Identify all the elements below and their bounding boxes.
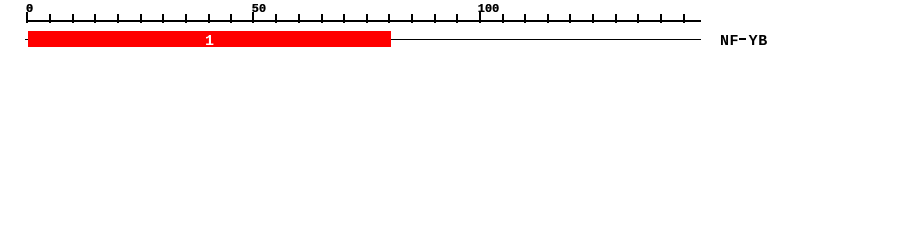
label 0 [26,3,33,15]
ruler minor tick [72,14,74,23]
hyphen of NF-YB [739,38,746,40]
ruler minor tick [592,14,594,23]
major tick 100 [479,12,481,23]
ruler minor tick [569,14,571,23]
ruler minor tick [547,14,549,23]
label 100 [478,3,500,15]
domain label 1 [205,34,214,49]
ruler minor tick [117,14,119,23]
ruler minor tick [615,14,617,23]
domain bar [28,31,391,47]
ruler minor tick [140,14,142,23]
sequence line [25,39,701,41]
ruler minor tick [660,14,662,23]
ruler minor tick [524,14,526,23]
ruler minor tick [208,14,210,23]
ruler minor tick [49,14,51,23]
protein name NF-YB [720,34,768,49]
ruler minor tick [321,14,323,23]
ruler minor tick [502,14,504,23]
ruler minor tick [683,14,685,23]
ruler minor tick [94,14,96,23]
ruler minor tick [275,14,277,23]
major tick 0 [26,12,28,23]
ruler minor tick [343,14,345,23]
label 50 [252,3,266,15]
ruler line [27,20,701,22]
ruler minor tick [185,14,187,23]
ruler minor tick [434,14,436,23]
ruler minor tick [411,14,413,23]
ruler minor tick [388,14,390,23]
major tick 50 [252,12,254,23]
ruler minor tick [298,14,300,23]
ruler minor tick [456,14,458,23]
ruler minor tick [162,14,164,23]
ruler minor tick [230,14,232,23]
ruler minor tick [637,14,639,23]
ruler minor tick [366,14,368,23]
